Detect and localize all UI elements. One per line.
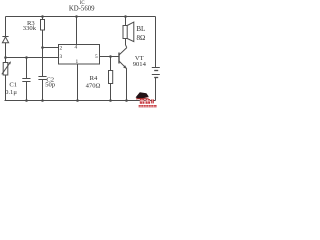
wire pin 1 [77, 64, 79, 101]
wire left drop [5, 17, 7, 37]
battery GB [152, 68, 160, 101]
svg-text:330k: 330k [23, 25, 37, 32]
watermark characters [140, 99, 154, 104]
potentiometer RP [2, 58, 11, 101]
svg-text:50p: 50p [45, 81, 56, 88]
node pin2 junction [41, 46, 44, 49]
transistor Q1 VT 9014 [119, 48, 127, 101]
svg-text:4: 4 [75, 44, 78, 50]
node A diode junction [4, 56, 7, 59]
resistor R3 [41, 17, 45, 48]
node pin1 bottom [76, 99, 79, 102]
svg-text:2: 2 [59, 46, 62, 52]
wire pin 5 [100, 56, 119, 58]
wire right drop [155, 17, 157, 68]
watermark character gaps [140, 99, 153, 104]
svg-text:R4: R4 [90, 75, 98, 82]
wire pin 4 [76, 17, 78, 45]
svg-text:0.1μ: 0.1μ [5, 89, 17, 96]
watermark small text [139, 105, 157, 107]
wire mid rail to pin 3 [6, 57, 59, 59]
svg-text:BL: BL [136, 25, 145, 33]
node R4 top [109, 55, 112, 58]
svg-text:1: 1 [75, 59, 78, 65]
resistor R4 [109, 57, 113, 101]
watermark small text gaps [139, 105, 157, 107]
node R3 top [41, 15, 44, 18]
node pin4 top [75, 15, 78, 18]
svg-text:C1: C1 [9, 82, 17, 89]
op-amp U1 KD-5609 IC box [59, 45, 100, 65]
svg-text:9014: 9014 [133, 61, 147, 68]
node C2 bottom [41, 99, 44, 102]
svg-text:KD-5609: KD-5609 [69, 5, 95, 12]
svg-text:3: 3 [59, 54, 62, 60]
wire bottom rail [5, 100, 156, 102]
capacitor C1 [22, 58, 30, 101]
svg-text:5: 5 [95, 54, 98, 60]
node R4 bottom [109, 99, 112, 102]
watermark logo hat [136, 92, 149, 99]
node C1 top [25, 56, 28, 59]
svg-text:470Ω: 470Ω [86, 82, 101, 89]
wire top rail [6, 16, 156, 18]
diode VD [2, 37, 8, 58]
wire pin 2 [43, 47, 59, 49]
speaker BL [123, 17, 134, 48]
node emitter bottom [125, 99, 128, 102]
capacitor C2 [38, 48, 46, 101]
node C1 bottom [25, 99, 28, 102]
svg-text:8Ω: 8Ω [136, 34, 145, 42]
node speaker top [124, 15, 127, 18]
